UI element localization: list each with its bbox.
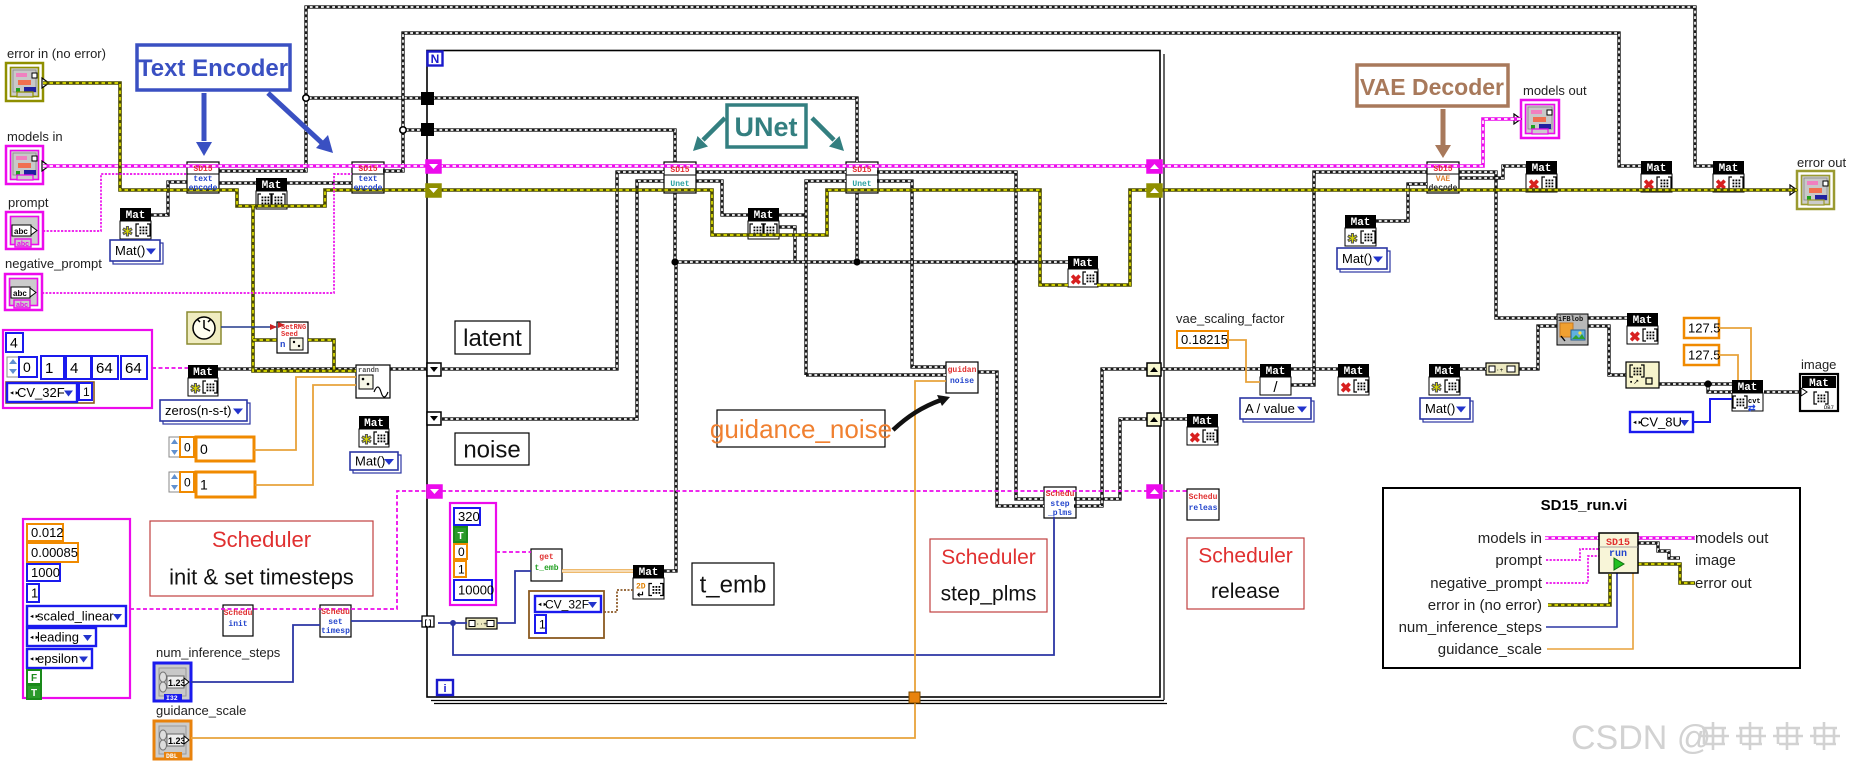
svg-text:timesp: timesp [321, 627, 350, 636]
svg-text:models in: models in [1478, 530, 1542, 547]
svg-text:SD15_run.vi: SD15_run.vi [1541, 497, 1628, 514]
svg-text:SD15: SD15 [670, 166, 689, 175]
svg-text:1: 1 [45, 360, 53, 377]
svg-text:4: 4 [10, 335, 18, 351]
svg-text:Mat: Mat [1351, 217, 1371, 229]
svg-text:releas: releas [1189, 504, 1218, 513]
svg-text:run: run [1609, 549, 1627, 560]
svg-text:1: 1 [83, 385, 90, 399]
wire cv32f cluster wire [604, 590, 633, 612]
terminal guidance_scale icon [154, 721, 191, 759]
terminal prompt icon [6, 212, 43, 249]
value channels 1 [79, 383, 92, 400]
svg-text:epsilon: epsilon [37, 651, 78, 666]
svg-text:4: 4 [70, 360, 78, 377]
svg-text:error in (no error): error in (no error) [7, 46, 106, 61]
wire icon image stub [1638, 543, 1680, 558]
svg-text:Mat: Mat [1073, 258, 1093, 270]
svg-text:encode: encode [354, 184, 383, 193]
svg-text:Mat: Mat [1633, 315, 1653, 327]
dropdown A/value [1243, 401, 1314, 422]
value 0.18215 [1177, 331, 1228, 348]
node Mat Mat convert (cvt) [1732, 380, 1763, 413]
svg-text:SD15: SD15 [358, 165, 377, 174]
wire clock to SetRNG [221, 326, 277, 328]
svg-text:negative_prompt: negative_prompt [1430, 575, 1543, 592]
wire UNet1 out to UNet2 in1 [696, 170, 846, 173]
svg-text:⇄: ⇄ [1748, 403, 1756, 413]
indicator image Mat [1800, 374, 1838, 411]
svg-text:Mat: Mat [193, 367, 213, 379]
node SetRNG Seed [277, 322, 308, 353]
svg-text:Mat: Mat [1435, 366, 1455, 378]
connector pane box SD15_run.vi [1383, 488, 1800, 668]
enum epsilon [27, 649, 92, 668]
wire guidance noise out to step_plms [978, 372, 1044, 506]
value one [27, 584, 39, 602]
node randn [356, 365, 390, 398]
wire pane num_inference_steps [1546, 573, 1617, 627]
svg-text:127.5: 127.5 [1688, 321, 1721, 336]
wire t_emb to UNet1 bottom [673, 193, 676, 262]
node Mat empty Mat constant 1 (star) [120, 208, 151, 239]
node Mat Mat release temb (x) [1068, 256, 1098, 288]
node Mat empty Mat constant 3 (star) [1429, 364, 1460, 395]
wire Mat empty to insert node [1460, 367, 1486, 370]
t_emb params cluster [450, 503, 496, 605]
wire Mat concat to encode2 [287, 181, 352, 184]
tunnel square 2 [421, 123, 434, 136]
wire iFBlot out to MatX3 [1588, 316, 1627, 319]
svg-text:image: image [1801, 357, 1836, 372]
svg-text:1: 1 [458, 562, 465, 576]
arrow guidance_noise curved [893, 400, 941, 430]
dropdown Mat() 1 [113, 243, 163, 264]
wire t_emb rail [676, 260, 1068, 263]
node SD15 Unet 1 [664, 162, 696, 193]
svg-text:64: 64 [96, 360, 113, 377]
svg-text:0.00085: 0.00085 [31, 545, 78, 560]
value dim 64a [92, 356, 118, 379]
node Mat Mat release 6 (x) [1713, 161, 1744, 193]
svg-text:release: release [1211, 580, 1280, 603]
wire branch to Mat cvt in2 [1708, 384, 1732, 392]
node SD15 Unet 2 [846, 162, 878, 193]
svg-text:1: 1 [539, 617, 546, 631]
svg-text:UNet: UNet [734, 112, 797, 142]
value spin 0a [180, 437, 194, 457]
wire error out of SetRNG [308, 340, 334, 371]
label Scheduler release [1187, 538, 1304, 609]
svg-text:✖: ✖ [1189, 430, 1201, 446]
node Scheduler set timesteps node [320, 605, 351, 637]
value range 1 [196, 472, 255, 497]
value 0.012 [27, 524, 63, 541]
wire concat2 out2 down to temb rail [779, 227, 795, 262]
wire embedding A into loop to UNet2 top [306, 98, 857, 162]
clock icon [187, 312, 221, 344]
wire Mat2D t_emb up [664, 262, 676, 571]
wire empty Mat to encode1 [151, 182, 187, 215]
svg-text:t_emb: t_emb [700, 572, 767, 599]
wire noise SR to UNet1 in2 [442, 181, 664, 419]
svg-text:1000: 1000 [31, 565, 60, 580]
svg-text:A / value: A / value [1245, 401, 1295, 416]
arrow VAE Decoder down [1441, 109, 1446, 147]
node Scheduler release node [1187, 489, 1219, 520]
svg-text:abc: abc [13, 289, 27, 298]
wire VAE out2 to MatX4 [1459, 166, 1526, 178]
value array 4 [6, 333, 23, 352]
svg-text:models out: models out [1695, 530, 1769, 547]
wire pane error out [1638, 564, 1695, 583]
svg-text:noise: noise [950, 377, 974, 386]
wire error into SetRNG [253, 338, 277, 342]
svg-text:↵: ↵ [637, 590, 645, 600]
svg-text:64: 64 [125, 360, 142, 377]
wire reshape out to Mat cvt [1659, 382, 1732, 385]
wire UNet1 out2 to Mat concat2 [696, 181, 748, 215]
wire randn to latent shift register [390, 367, 429, 370]
terminal num_inference_steps icon [154, 663, 191, 701]
CV_32F cluster 2 [529, 591, 604, 638]
wire Mat divide out to VAE decode [1291, 172, 1427, 385]
enum scaled_linear [27, 606, 126, 626]
svg-text:_plms: _plms [1047, 509, 1072, 518]
value dim 1 [41, 356, 64, 379]
terminal models out icon [1521, 100, 1559, 138]
svg-text:Mat: Mat [126, 210, 146, 222]
svg-text:F: F [31, 673, 37, 684]
wire VAE image to iFBlot [1459, 172, 1557, 318]
svg-text:guidan: guidan [948, 366, 977, 375]
svg-text:Unet: Unet [852, 180, 871, 189]
svg-text:Mat(): Mat() [355, 454, 385, 469]
index spinner [7, 357, 19, 377]
wire t_emb vector [562, 569, 633, 572]
node Mat Mat concat 1 (cat) [256, 178, 287, 209]
svg-text:i: i [443, 683, 446, 695]
big label UNet [727, 105, 806, 147]
wire pane prompt [1546, 549, 1599, 560]
wire 127.5 to cvt [1719, 328, 1751, 380]
node Mat Mat zeros (star) [188, 365, 218, 396]
wire error branch to randn [253, 206, 356, 371]
terminal models in icon [6, 146, 43, 184]
svg-text:Mat(): Mat() [115, 243, 145, 258]
node Mat Mat release 5 (x) [1641, 161, 1672, 193]
wire tunnel2 to MatX7 [1160, 417, 1187, 420]
wire step_plms out to tunnel2 [1074, 419, 1149, 499]
shift register scheduler left [427, 485, 442, 498]
wire Mat concat2 out [779, 213, 806, 216]
dropdown Mat() 4 [1340, 251, 1390, 272]
arrow UNet left [703, 118, 725, 140]
svg-text:Mat: Mat [1266, 366, 1286, 378]
pane run icon [1599, 533, 1638, 573]
label latent [455, 321, 530, 354]
svg-text:T: T [31, 688, 37, 699]
wire index to get t_emb [497, 571, 531, 623]
svg-text:Mat: Mat [1532, 163, 1552, 175]
loop iterator i [437, 680, 453, 695]
svg-text:abc: abc [14, 227, 28, 236]
svg-text:SD15: SD15 [193, 165, 212, 174]
wire scheduler state wire [130, 491, 427, 609]
wire error rail left part [43, 83, 1068, 285]
svg-text:Scheduler: Scheduler [1198, 544, 1293, 567]
svg-text:Scheduler: Scheduler [212, 527, 311, 552]
wire 127.5 b to cvt [1719, 355, 1738, 380]
svg-text:abc: abc [17, 241, 29, 248]
label noise [455, 433, 529, 465]
svg-text:SD15: SD15 [852, 166, 871, 175]
label Scheduler init [150, 521, 373, 596]
svg-text:t_emb: t_emb [534, 564, 558, 573]
value dim 64b [121, 356, 147, 379]
value t0 [454, 544, 467, 559]
wire models in rail to models out [43, 119, 1521, 166]
svg-text:0: 0 [184, 440, 191, 454]
tunnel out2 right [1147, 413, 1161, 426]
svg-text:error in (no error): error in (no error) [1428, 597, 1542, 614]
svg-text:models out: models out [1523, 83, 1587, 98]
wire empty Mat to VAE decode [1376, 184, 1427, 221]
svg-text:Text Encoder: Text Encoder [138, 55, 288, 82]
svg-text:CSDN @: CSDN @ [1571, 719, 1711, 757]
wire latent SR to UNet1 in1 [442, 172, 664, 369]
svg-text:VAE: VAE [1436, 175, 1451, 184]
tunnel square 1 [421, 92, 434, 105]
loop count N [428, 52, 443, 66]
wire CV_8U to cvt [1693, 399, 1732, 422]
svg-text:Mat: Mat [1647, 163, 1667, 175]
svg-text:Mat: Mat [1719, 163, 1739, 175]
wire branch to guidance noise in2 [806, 373, 946, 376]
wire scheduler state in loop [442, 490, 1160, 492]
svg-text:randn: randn [358, 367, 379, 375]
svg-text:latent: latent [463, 325, 522, 352]
wire timestep to step_plms [453, 517, 1054, 655]
svg-text:Unet: Unet [670, 180, 689, 189]
svg-text:error out: error out [1695, 575, 1753, 592]
wire t_emb to UNet2 bottom [855, 193, 858, 262]
wire embedding B into loop to UNet1 top [403, 130, 675, 162]
value 127.5 b [1684, 345, 1719, 365]
svg-text:prompt: prompt [8, 195, 49, 210]
svg-text:✱: ✱ [1431, 380, 1442, 395]
svg-text:1: 1 [31, 586, 38, 601]
svg-text:init: init [228, 620, 247, 629]
svg-text:1: 1 [200, 477, 208, 493]
svg-text:n: n [280, 340, 285, 350]
CV_32F enum in array cluster [6, 382, 94, 403]
node SD15 text encode 2 [352, 162, 384, 193]
svg-text:Mat: Mat [754, 210, 774, 222]
for-loop frame [427, 51, 1160, 698]
svg-text:0: 0 [23, 359, 31, 375]
value range 0 [196, 437, 254, 461]
tunnel latent out right [1147, 363, 1161, 376]
svg-text:num_inference_steps: num_inference_steps [156, 645, 281, 660]
svg-text:text: text [358, 175, 377, 184]
svg-text:Schedu: Schedu [1046, 490, 1075, 499]
svg-text:zeros(n-s-t): zeros(n-s-t) [165, 403, 231, 418]
value cv 1 [535, 615, 546, 633]
node SD15 VAE decode [1427, 162, 1459, 193]
svg-text:Schedu: Schedu [321, 608, 350, 617]
svg-text:✖: ✖ [1070, 272, 1082, 288]
svg-text:··+: ··+ [476, 621, 487, 628]
node iFBlot [1557, 314, 1588, 345]
value t1 [454, 561, 466, 577]
svg-text:✖: ✖ [1629, 329, 1641, 345]
svg-text:0: 0 [184, 475, 191, 489]
svg-text:0: 0 [458, 545, 465, 559]
svg-text:·+: ·+ [1496, 367, 1504, 374]
wire pane models [1545, 536, 1695, 540]
wire Mat cvt to image indicator [1764, 390, 1800, 393]
svg-text:step: step [1050, 500, 1069, 509]
node Mat Mat release 2 (x) [1338, 364, 1369, 396]
wire scheduler state to release [1163, 490, 1187, 492]
svg-text:image: image [1695, 552, 1736, 569]
node Mat Mat divide (div) [1260, 364, 1291, 396]
wire error rail right part [1097, 190, 1797, 285]
wire pane error in [1548, 574, 1610, 605]
svg-text:negative_prompt: negative_prompt [5, 256, 102, 271]
svg-text:127.5: 127.5 [1688, 348, 1721, 363]
svg-text:VAE Decoder: VAE Decoder [1360, 74, 1504, 100]
svg-text:CV_32F: CV_32F [17, 385, 65, 400]
svg-text:Mat: Mat [639, 567, 659, 579]
scheduler params cluster [23, 519, 130, 698]
wire encode2 embedding rail B to MatX5 [383, 33, 1641, 171]
node Mat Mat concat 2 (cat) [748, 208, 779, 239]
label t_emb [692, 563, 774, 605]
orange spinner pair 2 [169, 472, 180, 492]
wire encode1 embedding to top rail A to MatX6 [219, 7, 1713, 171]
svg-text:[]: [] [424, 620, 432, 628]
svg-text:T: T [457, 531, 463, 542]
wire insert to iFBlot in2 [1519, 326, 1557, 369]
array size cluster [3, 330, 152, 408]
wire timesteps in loop [438, 622, 467, 624]
svg-text:DB7: DB7 [1824, 404, 1834, 411]
enum CV_32F array [7, 383, 77, 402]
enum CV_32F b [535, 596, 601, 612]
node insert blob [1486, 363, 1519, 375]
svg-text:Mat: Mat [262, 180, 282, 192]
svg-text:I32: I32 [166, 695, 178, 702]
value 320 [454, 508, 480, 525]
node Mat Mat from 2D array (2d) [633, 565, 664, 600]
svg-text:text: text [193, 175, 212, 184]
svg-text:SD15: SD15 [1433, 165, 1452, 174]
svg-text:N: N [431, 52, 440, 66]
svg-text:CV_8U: CV_8U [1640, 415, 1682, 430]
svg-text:✱: ✱ [361, 432, 372, 447]
svg-text:Scheduler: Scheduler [941, 546, 1036, 569]
node Mat Mat release 7 (x) [1627, 313, 1658, 345]
node SD15 text encode 1 [187, 162, 219, 193]
dropdown Mat() 3 [1423, 401, 1473, 422]
svg-text:Schedu: Schedu [1189, 493, 1218, 502]
svg-text:guidance_scale: guidance_scale [156, 703, 246, 718]
dropdown zeros dropdown [163, 403, 250, 424]
wire vae_scaling_factor to divide [1228, 340, 1260, 382]
svg-text:CV_32F: CV_32F [545, 597, 589, 611]
big label Text Encoder [137, 45, 290, 90]
orange spinner pair 1 [169, 437, 180, 457]
svg-text:Mat: Mat [1193, 416, 1213, 428]
value 1000 [27, 564, 60, 581]
enum CV_8U [1630, 412, 1693, 432]
svg-text:1.23: 1.23 [168, 736, 186, 746]
svg-text:Mat: Mat [1738, 382, 1758, 394]
tunnel timesteps array [422, 616, 434, 627]
shift register models right [1147, 160, 1162, 173]
shift register scheduler right [1147, 485, 1162, 498]
node Mat Mat release 4 (x) [1526, 161, 1557, 193]
wire iFBlot out2 to reshape [1588, 326, 1626, 375]
node Mat Mat release 3 (x) [1187, 414, 1218, 446]
arrow UNet right [812, 118, 834, 140]
svg-text:guidance_noise: guidance_noise [710, 414, 892, 444]
svg-text:Mat(): Mat() [1342, 251, 1372, 266]
svg-text:prompt: prompt [1495, 552, 1543, 569]
node get t_emb node [531, 549, 562, 581]
wire pane guidance_scale [1547, 573, 1633, 649]
terminal error out icon [1797, 171, 1834, 209]
wire pane negative_prompt [1546, 556, 1599, 583]
value dim 4 [66, 356, 91, 379]
wire Mat divide to MatX2 [1291, 367, 1338, 370]
wire const 0 to randn [254, 377, 356, 450]
terminal negative_prompt icon [5, 274, 42, 310]
arrow from Text Encoder to encode2 [268, 93, 322, 143]
wire concat2 to UNet2 in2 [806, 181, 846, 375]
wire encode1 to Mat concat [219, 181, 256, 184]
value spin 0b [180, 472, 194, 492]
wire step_plms out to tunnel1 [1074, 369, 1149, 506]
node Mat empty Mat constant 2 (star) [359, 416, 389, 447]
svg-text:Mat: Mat [1344, 366, 1364, 378]
big label VAE Decoder [1357, 65, 1508, 106]
wire guidance_scale wire [191, 381, 946, 738]
svg-text:Mat: Mat [364, 418, 384, 430]
enum leading [27, 628, 96, 646]
svg-text:guidance_scale: guidance_scale [1438, 641, 1542, 658]
svg-text:abc: abc [16, 302, 28, 309]
arrow from Text Encoder to encode1 [202, 93, 207, 141]
shift register latent left [427, 363, 441, 376]
node Scheduler step_plms node [1044, 487, 1076, 518]
wire temb cluster to get node [496, 551, 531, 553]
svg-text:▪↗: ▪↗ [1629, 379, 1639, 387]
shift register error left [426, 184, 441, 197]
svg-text:error out: error out [1797, 155, 1847, 170]
node reshape [1626, 362, 1659, 388]
terminal error in icon [6, 63, 43, 101]
value 127.5 a [1684, 318, 1719, 338]
wire negative_prompt string wire [42, 174, 352, 293]
svg-text:Mat: Mat [1809, 378, 1829, 390]
svg-text:Schedu: Schedu [224, 609, 253, 618]
svg-text:get: get [539, 553, 554, 562]
svg-text:models in: models in [7, 129, 63, 144]
svg-text:leading: leading [37, 630, 79, 645]
